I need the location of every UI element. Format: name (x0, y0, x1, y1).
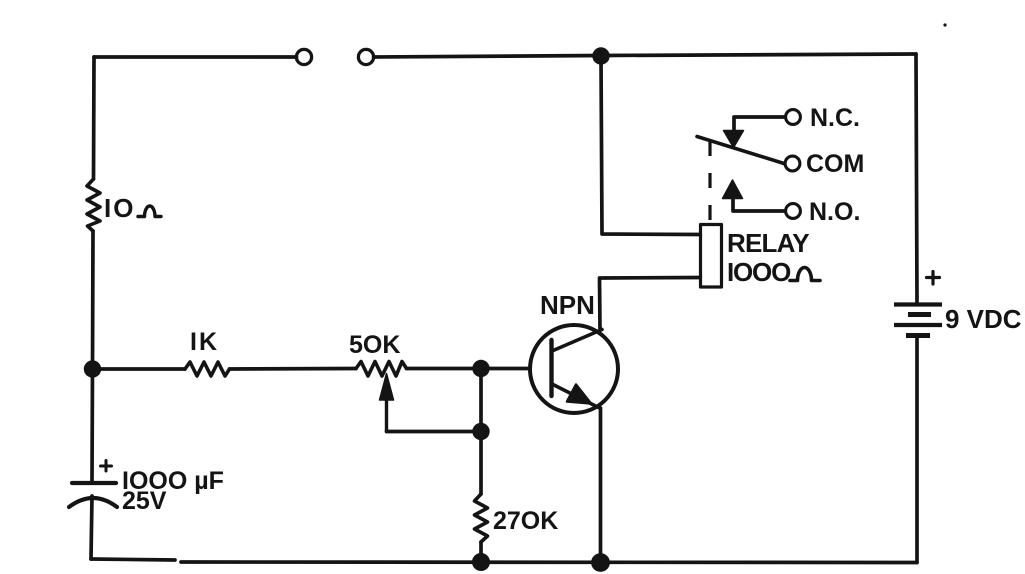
svg-text:IOOO: IOOO (727, 257, 791, 287)
capacitor C1 plus sign (101, 461, 112, 472)
svg-text:27OK: 27OK (493, 507, 558, 535)
svg-text:NPN: NPN (540, 290, 595, 320)
relay K1 coil rectangle (701, 225, 722, 288)
relay contact COM terminal circle (785, 156, 800, 171)
potentiometer 50K wiper arrowhead (380, 374, 394, 401)
svg-text:25V: 25V (122, 487, 167, 515)
node junction dot emitter bottom (591, 553, 610, 572)
wire junction vertical (479, 369, 483, 432)
wire bottom rail left segment (91, 559, 175, 560)
resistor R 1K (horizontal zigzag) (185, 362, 230, 376)
wire capacitor to bottom rail (91, 496, 92, 559)
switch S1 terminal circle right (358, 49, 373, 64)
wire emitter to bottom rail (599, 408, 603, 563)
wire right rail upper (916, 54, 917, 302)
relay contact N.O. wire (733, 198, 785, 211)
transistor Q1 emitter arrowhead (567, 385, 591, 404)
omega symbol for relay 1000 ohm label (790, 268, 820, 281)
relay contact N.C. terminal circle (786, 110, 801, 125)
relay contact arm COM lever (697, 137, 784, 164)
battery B1 plate long bottom (894, 323, 942, 327)
omega symbol for 10 ohm label (138, 206, 161, 217)
stray ink speck top right (943, 23, 946, 26)
wire left rail upper (92, 57, 96, 179)
capacitor C1 negative curved plate (69, 498, 117, 507)
resistor 10 ohm (vertical zigzag) (87, 179, 100, 231)
node junction dot top (592, 47, 609, 64)
battery B1 plate long top (894, 302, 942, 306)
wire left rail to capacitor (90, 369, 94, 482)
battery B1 plus sign (927, 272, 940, 285)
svg-text:IK: IK (190, 328, 219, 356)
wire left rail middle (91, 231, 95, 369)
relay contact N.O. terminal circle (786, 204, 801, 219)
node junction dot base (472, 360, 489, 377)
relay contact N.C. arrowhead (724, 131, 744, 148)
node junction dot left mid (84, 360, 101, 377)
potentiometer 50K (horizontal zigzag) (356, 362, 407, 377)
svg-text:N.C.: N.C. (810, 104, 860, 132)
transistor Q1 circle (530, 325, 618, 413)
node junction dot wiper (472, 423, 489, 440)
wire collector to relay coil (600, 278, 701, 331)
wire top rail right segment (374, 54, 916, 57)
battery B1 plate short lower (906, 333, 930, 338)
wire mid rail to 1K (93, 367, 186, 371)
wire 270K to bottom rail (479, 542, 483, 562)
node junction dot 270K bottom (472, 553, 490, 571)
wire 1K to 50K (230, 367, 357, 371)
wire junction to 270K (479, 432, 483, 495)
wire bottom rail right segment (181, 560, 917, 564)
transistor Q1 emitter stroke (552, 384, 600, 408)
transistor Q1 base bar (549, 340, 553, 396)
relay contact N.O. arrowhead (723, 180, 743, 199)
svg-text:IO: IO (104, 193, 135, 223)
svg-text:RELAY: RELAY (727, 228, 809, 258)
svg-text:COM: COM (806, 150, 864, 178)
wire base junction to transistor base (481, 367, 530, 371)
wire top rail left segment (94, 55, 297, 59)
battery B1 plate short upper (908, 312, 931, 317)
potentiometer 50K wiper arrow (385, 399, 388, 432)
wire right rail lower (915, 337, 919, 563)
wire 50K to base junction (407, 367, 482, 371)
capacitor C1 positive plate (72, 481, 116, 485)
resistor R 270K (vertical zigzag) (475, 494, 488, 542)
switch S1 terminal circle left (296, 49, 311, 64)
wire wiper to lower junction (387, 430, 482, 434)
relay K1 dashed actuation line (708, 141, 711, 224)
wire top junction down to relay coil (601, 56, 700, 235)
transistor Q1 collector stroke (552, 330, 602, 352)
svg-text:9 VDC: 9 VDC (945, 304, 1022, 334)
svg-text:5OK: 5OK (349, 331, 400, 359)
svg-text:N.O.: N.O. (809, 198, 860, 226)
relay contact N.C. wire (734, 117, 785, 132)
